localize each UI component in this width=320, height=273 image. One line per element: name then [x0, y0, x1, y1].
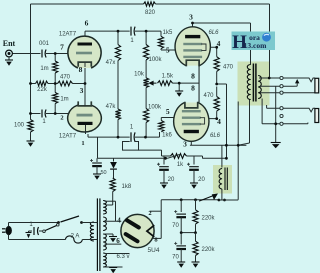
svg-text:100: 100: [14, 123, 25, 129]
svg-text:70: 70: [172, 255, 179, 261]
svg-text:7: 7: [60, 43, 64, 52]
svg-text:5U4: 5U4: [148, 247, 160, 254]
svg-text:6: 6: [116, 237, 120, 245]
svg-text:4: 4: [217, 39, 221, 48]
svg-text:1.5k: 1.5k: [162, 74, 174, 80]
svg-text:100k: 100k: [148, 57, 162, 63]
svg-text:12AT7: 12AT7: [59, 32, 77, 38]
svg-text:1: 1: [81, 140, 84, 147]
svg-text:1m: 1m: [40, 66, 48, 72]
svg-text:820: 820: [145, 10, 156, 16]
svg-text:100k: 100k: [148, 105, 162, 111]
svg-text:6L6: 6L6: [208, 30, 219, 36]
svg-text:470: 470: [60, 75, 71, 81]
svg-text:1m: 1m: [60, 97, 68, 103]
svg-text:8: 8: [79, 65, 83, 74]
svg-text:70: 70: [172, 223, 179, 229]
svg-text:2: 2: [148, 210, 151, 217]
svg-text:1k6: 1k6: [162, 133, 172, 139]
svg-text:47k: 47k: [106, 104, 117, 110]
svg-text:12AT7: 12AT7: [59, 134, 77, 140]
svg-text:8: 8: [191, 84, 195, 93]
svg-text:470: 470: [203, 93, 214, 99]
svg-text:6: 6: [85, 19, 89, 28]
svg-text:4: 4: [217, 117, 221, 126]
svg-text:2: 2: [60, 115, 63, 122]
svg-text:8: 8: [191, 72, 195, 81]
svg-text:6L6: 6L6: [210, 133, 221, 139]
svg-text:47x: 47x: [106, 60, 116, 66]
svg-text:001: 001: [39, 41, 50, 47]
svg-text:220k: 220k: [202, 216, 216, 222]
svg-text:1k5: 1k5: [163, 30, 173, 36]
svg-text:20: 20: [198, 177, 205, 183]
svg-text:20: 20: [168, 177, 175, 183]
svg-text:50: 50: [100, 170, 106, 176]
svg-text:5: 5: [166, 46, 170, 55]
svg-text:13.com: 13.com: [244, 41, 267, 50]
svg-text:3: 3: [189, 13, 193, 22]
svg-text:4: 4: [117, 217, 121, 225]
svg-text:3: 3: [183, 140, 187, 149]
svg-text:10k: 10k: [134, 72, 145, 78]
svg-text:470: 470: [223, 65, 234, 71]
svg-text:1k: 1k: [177, 162, 184, 168]
svg-text:2 A: 2 A: [71, 234, 80, 240]
svg-text:1k8: 1k8: [122, 184, 132, 190]
svg-text:220k: 220k: [202, 247, 216, 253]
svg-text:5: 5: [166, 107, 170, 116]
svg-text:22k: 22k: [37, 87, 48, 93]
svg-text:3: 3: [80, 86, 84, 95]
svg-text:Ent: Ent: [3, 39, 16, 48]
svg-text:6.3 v: 6.3 v: [116, 254, 129, 260]
